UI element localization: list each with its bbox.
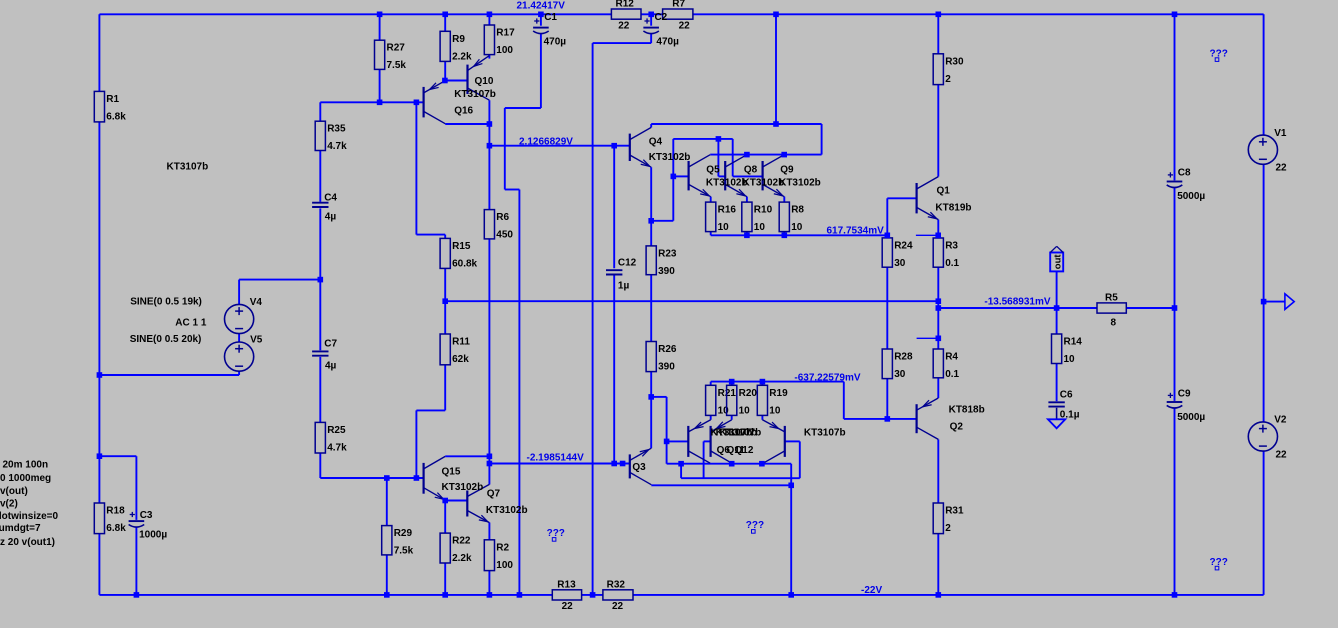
svg-text:R31: R31 xyxy=(945,506,964,517)
svg-text:62k: 62k xyxy=(452,354,469,365)
junction xyxy=(377,12,383,18)
wire C8 top xyxy=(1174,14,1176,180)
capacitor C8 xyxy=(1167,168,1206,203)
wire Q10 collector to R6 xyxy=(488,100,490,209)
wire R11 jog riser xyxy=(415,410,417,478)
svg-text:R15: R15 xyxy=(452,241,471,252)
wire top rail right xyxy=(693,13,1264,15)
resistor R25 xyxy=(315,422,347,453)
resistor R23 xyxy=(646,246,677,277)
junction xyxy=(729,379,735,385)
svg-text:KT3107b: KT3107b xyxy=(720,427,762,438)
wire V4 top branch xyxy=(239,279,320,281)
junction xyxy=(414,100,420,106)
label Q3 xyxy=(632,462,646,473)
junction xyxy=(773,121,779,127)
junction xyxy=(648,394,654,400)
junction xyxy=(487,454,493,460)
wire R26 bottom xyxy=(650,372,652,397)
wire base bus top xyxy=(673,138,732,140)
svg-text:R12: R12 xyxy=(616,0,635,10)
wire R9 bottom xyxy=(444,61,446,80)
net label 617.7534mV xyxy=(827,225,885,236)
svg-text:KT3107b: KT3107b xyxy=(454,89,496,100)
junction xyxy=(384,475,390,481)
wire Q4 collector loop top xyxy=(651,123,821,125)
wire C12 bottom xyxy=(613,275,615,464)
resistor R6 xyxy=(484,210,513,241)
wire C3 to rail xyxy=(135,527,137,595)
wire Q11 base xyxy=(704,440,711,442)
svg-text:.plotwinsize=0: .plotwinsize=0 xyxy=(0,511,59,522)
wire bottom rail right xyxy=(633,594,1264,596)
svg-text:C7: C7 xyxy=(324,339,337,350)
wire R11 jog xyxy=(416,409,445,411)
net label -2.1985144V xyxy=(527,452,585,463)
svg-text:Q16: Q16 xyxy=(454,105,473,116)
junction xyxy=(648,218,654,224)
wire C2 top xyxy=(650,14,652,25)
wire R15 jog xyxy=(416,234,445,236)
wire R24 to R28 xyxy=(886,267,888,349)
svg-text:Q8: Q8 xyxy=(744,164,758,175)
wire bottom rail to V2 xyxy=(1263,451,1265,595)
junction xyxy=(318,277,324,283)
junction xyxy=(781,152,787,158)
svg-text:R7: R7 xyxy=(672,0,685,10)
junction xyxy=(442,298,448,304)
resistor R10 xyxy=(742,202,773,233)
wire V5 bottom stub xyxy=(238,371,240,375)
resistor R29 xyxy=(382,526,414,557)
wire R19 top stub xyxy=(761,382,763,386)
svg-text:6.8k: 6.8k xyxy=(106,523,126,534)
svg-text:R26: R26 xyxy=(658,344,677,355)
wire C1 to bottom rail xyxy=(518,190,520,595)
wire R21 top stub xyxy=(710,382,712,386)
svg-text:0.1: 0.1 xyxy=(945,369,959,380)
wire Q16 Q10 collector tie xyxy=(445,123,489,125)
wire Q1 emitter to R3 xyxy=(937,220,939,238)
resistor R14 xyxy=(1052,334,1083,365)
label Q5 xyxy=(706,164,720,175)
svg-text:R6: R6 xyxy=(496,212,509,223)
wire R22 bottom xyxy=(444,563,446,595)
wire Q8 base xyxy=(718,175,725,177)
wire R14 top xyxy=(1056,308,1058,334)
wire Q16 base line xyxy=(320,101,423,103)
wire Q12 base xyxy=(785,440,800,442)
label Q15 xyxy=(442,466,461,477)
transistor Q1 KT819b xyxy=(917,177,939,220)
label SINE(0 0.5 19k) xyxy=(130,296,202,307)
junction xyxy=(538,12,544,18)
svg-text:2.2k: 2.2k xyxy=(452,51,472,62)
svg-text:-2.1985144V: -2.1985144V xyxy=(527,452,585,463)
svg-text:10: 10 xyxy=(769,405,781,416)
svg-text:Q4: Q4 xyxy=(649,137,663,148)
junction xyxy=(1172,12,1178,18)
label Q7 xyxy=(487,489,501,500)
capacitor C3 xyxy=(129,510,168,540)
wire R2 bottom xyxy=(488,571,490,595)
wire base bus left riser xyxy=(672,139,674,221)
svg-text:10: 10 xyxy=(1064,354,1076,365)
label Q11 xyxy=(727,445,746,456)
svg-text:R2: R2 xyxy=(496,542,509,553)
svg-text:out: out xyxy=(1052,254,1063,270)
wire cluster to bottom rail xyxy=(790,464,792,595)
transistor Q11 KT3107b xyxy=(711,420,732,463)
svg-text:R3: R3 xyxy=(945,241,958,252)
label KT3102b xyxy=(486,505,528,516)
svg-text:390: 390 xyxy=(658,362,675,373)
svg-text:4.7k: 4.7k xyxy=(327,442,347,453)
svg-text:4µ: 4µ xyxy=(325,361,337,372)
transistor Q3 KT3102b xyxy=(630,448,652,485)
label KT819b xyxy=(935,203,971,214)
wire R27 top xyxy=(379,14,381,40)
wire Q6 base xyxy=(667,440,689,442)
svg-text:KT3107b: KT3107b xyxy=(167,162,209,173)
svg-text:KT3107b: KT3107b xyxy=(804,427,846,438)
net label 2.1266829V xyxy=(519,137,573,148)
wire Q4 collector stub xyxy=(650,124,652,127)
svg-text:60.8k: 60.8k xyxy=(452,258,477,269)
junction xyxy=(134,592,140,598)
svg-text:R24: R24 xyxy=(894,240,913,251)
svg-text:V2: V2 xyxy=(1274,415,1287,426)
junction xyxy=(97,372,103,378)
wire R20 top stub xyxy=(731,382,733,386)
svg-text:617.7534mV: 617.7534mV xyxy=(827,225,885,236)
wire +22V top rail left xyxy=(99,13,611,15)
wire R10 bottom stub xyxy=(746,232,748,236)
wire C12 top xyxy=(613,146,615,269)
resistor R32 xyxy=(603,579,633,612)
spice directive xyxy=(0,523,41,534)
spice directive xyxy=(0,499,18,510)
wire C9 top xyxy=(1174,308,1176,401)
svg-text:Q5: Q5 xyxy=(706,164,720,175)
resistor R28 xyxy=(882,349,913,380)
svg-text:R18: R18 xyxy=(106,506,125,517)
svg-text:-13.568931mV: -13.568931mV xyxy=(984,297,1050,308)
label KT3107b xyxy=(716,427,758,438)
spice directive xyxy=(0,486,28,497)
svg-text:C6: C6 xyxy=(1060,390,1073,401)
label Q2 xyxy=(950,422,964,433)
svg-text:C2: C2 xyxy=(654,12,667,23)
wire R15 top stub xyxy=(444,235,446,239)
junction xyxy=(487,461,493,467)
wire port stub xyxy=(1264,301,1285,303)
wire Q15 base line xyxy=(320,477,423,479)
svg-text:22: 22 xyxy=(679,20,691,31)
svg-text:v(2): v(2) xyxy=(0,499,18,510)
wire R14 to C6 xyxy=(1056,364,1058,402)
svg-text:Q7: Q7 xyxy=(487,489,501,500)
wire lower cluster bottom xyxy=(681,477,800,479)
wire top rail between R12 R7 xyxy=(641,13,663,15)
wire emitter node to base riser xyxy=(651,220,673,222)
svg-text:22: 22 xyxy=(612,601,624,612)
resistor R13 xyxy=(552,579,581,612)
transistor Q10 KT3107b xyxy=(468,56,490,101)
svg-text:7.5k: 7.5k xyxy=(394,546,414,557)
wire R22 top xyxy=(444,501,446,534)
svg-text:R1: R1 xyxy=(106,94,119,105)
svg-text:V4: V4 xyxy=(250,297,263,308)
wire Q3 emitter node tie xyxy=(651,396,666,398)
label KT3102b xyxy=(442,482,484,493)
junction xyxy=(936,12,942,18)
wire R4 top tie xyxy=(917,337,939,339)
svg-text:2.1266829V: 2.1266829V xyxy=(519,137,573,148)
svg-text:R23: R23 xyxy=(658,248,677,259)
wire C7 to R25 xyxy=(319,357,321,423)
svg-text:R30: R30 xyxy=(945,56,964,67)
svg-text:C12: C12 xyxy=(618,257,637,268)
resistor R3 xyxy=(933,238,959,269)
wire R29 top xyxy=(386,478,388,526)
ground xyxy=(1048,419,1065,428)
wire bottom rail between R13 R32 xyxy=(582,594,603,596)
svg-text:1000µ: 1000µ xyxy=(139,530,167,541)
svg-text:R17: R17 xyxy=(496,28,515,39)
wire R30 to Q1 collector xyxy=(937,85,939,177)
svg-text:Q3: Q3 xyxy=(632,462,646,473)
junction xyxy=(611,461,617,467)
junction xyxy=(729,461,735,467)
wire R23 to R26 xyxy=(650,275,652,342)
svg-text:KT3102b: KT3102b xyxy=(649,152,691,163)
wire R3 bottom xyxy=(937,267,939,301)
junction xyxy=(936,298,942,304)
label Q4 xyxy=(649,137,663,148)
label Q9 xyxy=(780,164,794,175)
wire R16 bottom stub xyxy=(710,232,712,236)
svg-text:8: 8 xyxy=(1111,318,1117,329)
junction xyxy=(936,305,942,311)
wire R35 top xyxy=(319,102,321,121)
svg-text:Q2: Q2 xyxy=(950,422,964,433)
wire V5 return xyxy=(99,374,239,376)
wire to C3 xyxy=(135,456,137,520)
wire Q1 base xyxy=(887,197,916,199)
wire C8 bottom xyxy=(1174,188,1176,308)
wire C1 drop xyxy=(504,108,506,190)
junction xyxy=(442,12,448,18)
voltage source V1 xyxy=(1248,128,1287,174)
svg-text:-22V: -22V xyxy=(861,585,882,596)
wire C3 top branch xyxy=(99,455,136,457)
resistor R5 xyxy=(1097,293,1126,329)
spice directive xyxy=(3,460,49,471)
label SINE(0 0.5 20k) xyxy=(130,334,202,345)
wire R25 bottom xyxy=(319,453,321,478)
wire R3 top stub xyxy=(916,234,938,236)
svg-text:0.1: 0.1 xyxy=(945,258,959,269)
svg-text:KT3102b: KT3102b xyxy=(706,177,748,188)
svg-text:10: 10 xyxy=(791,222,803,233)
svg-text:5000µ: 5000µ xyxy=(1177,412,1205,423)
wire R35 to C4 xyxy=(319,151,321,202)
junction xyxy=(487,12,493,18)
resistor R26 xyxy=(646,342,677,373)
wire R11 bottom xyxy=(444,365,446,411)
svg-text:V1: V1 xyxy=(1274,128,1287,139)
svg-text:SINE(0 0.5 20k): SINE(0 0.5 20k) xyxy=(130,334,202,345)
svg-text:2: 2 xyxy=(945,523,951,534)
capacitor C7 xyxy=(312,339,337,372)
svg-text:22: 22 xyxy=(1276,449,1288,460)
svg-text:R9: R9 xyxy=(452,34,465,45)
svg-text:R19: R19 xyxy=(769,388,788,399)
wire R24 top stub xyxy=(886,235,888,238)
wire Q1 base drop xyxy=(886,198,888,235)
wire Q2 base line xyxy=(844,418,917,420)
svg-text:10: 10 xyxy=(718,222,730,233)
wire Q8 base riser xyxy=(717,139,719,177)
junction xyxy=(487,592,493,598)
resistor R4 xyxy=(933,349,959,380)
net label ??? xyxy=(1210,557,1228,570)
transistor Q5 KT3102b xyxy=(689,155,711,197)
capacitor C6 xyxy=(1048,390,1079,421)
capacitor C9 xyxy=(1167,389,1206,423)
wire R6 bottom long xyxy=(488,239,490,456)
svg-text:R29: R29 xyxy=(394,528,413,539)
junction xyxy=(716,136,722,142)
net label -13.568931mV xyxy=(984,297,1050,308)
junction xyxy=(1054,305,1060,311)
wire Q4 emitter drop xyxy=(650,167,652,221)
resistor R1 xyxy=(94,91,126,122)
svg-text:z 20 v(out1): z 20 v(out1) xyxy=(0,537,55,548)
junction xyxy=(517,592,523,598)
port arrow xyxy=(1285,294,1294,310)
wire Q12 base riser xyxy=(799,441,801,478)
wire -22V bottom rail left xyxy=(99,594,552,596)
resistor R22 xyxy=(440,533,472,564)
voltage source V4 xyxy=(225,297,263,334)
junction xyxy=(377,100,383,106)
junction xyxy=(1261,299,1267,305)
resistor R11 xyxy=(440,334,470,365)
svg-text:Q15: Q15 xyxy=(442,466,461,477)
svg-text:R25: R25 xyxy=(327,425,346,436)
transistor Q16 KT3107b xyxy=(424,81,446,124)
svg-text:4µ: 4µ xyxy=(325,212,337,223)
resistor R17 xyxy=(484,25,515,56)
junction xyxy=(671,174,677,180)
wire loop corner xyxy=(821,124,823,155)
capacitor C2 xyxy=(643,12,679,47)
svg-text:470µ: 470µ xyxy=(656,36,679,47)
svg-text:10: 10 xyxy=(739,405,751,416)
label KT3107b xyxy=(804,427,846,438)
net label ??? xyxy=(746,520,764,533)
resistor R12 xyxy=(611,0,641,31)
svg-text:R10: R10 xyxy=(754,205,773,216)
svg-text:C1: C1 xyxy=(544,12,557,23)
wire C1 top xyxy=(540,14,542,25)
wire output line right of R5 xyxy=(1126,307,1174,309)
label KT3107b stray xyxy=(167,162,209,173)
wire Q3 collector line xyxy=(651,484,791,486)
svg-text:470µ: 470µ xyxy=(544,36,567,47)
label KT3107b xyxy=(711,427,753,438)
svg-text:0 1000meg: 0 1000meg xyxy=(0,473,51,484)
wire C1 jog2 xyxy=(505,189,520,191)
capacitor C12 xyxy=(606,257,637,291)
wire R8 bottom stub xyxy=(783,232,785,236)
svg-text:R32: R32 xyxy=(607,579,626,590)
svg-text:C4: C4 xyxy=(324,193,337,204)
wire Q5 emitter stub xyxy=(710,197,712,203)
wire Q2 collector to R31 xyxy=(937,439,939,503)
resistor R35 xyxy=(315,121,347,152)
spice directive xyxy=(0,473,51,484)
junction xyxy=(590,592,596,598)
wire C6 to ground xyxy=(1056,408,1058,420)
svg-text:22: 22 xyxy=(618,20,630,31)
svg-text:C3: C3 xyxy=(140,510,153,521)
wire Q9 base riser xyxy=(732,139,734,177)
wire bus drop xyxy=(680,464,682,479)
wire R18 to bottom rail xyxy=(98,534,100,595)
svg-text:R28: R28 xyxy=(894,352,913,363)
junction xyxy=(885,416,891,422)
label KT3102b xyxy=(743,177,785,188)
voltage source V2 xyxy=(1248,415,1287,461)
junction xyxy=(788,592,794,598)
svg-text:C8: C8 xyxy=(1178,168,1191,179)
wire V2 top xyxy=(1263,302,1265,422)
wire Q3 base line xyxy=(489,463,629,465)
net label ??? xyxy=(1210,48,1228,61)
svg-text:1µ: 1µ xyxy=(618,281,630,292)
junction xyxy=(442,78,448,84)
net label ??? xyxy=(547,528,565,541)
wire V4 to V5 xyxy=(238,334,240,342)
wire C9 bottom xyxy=(1174,408,1176,595)
wire R1 to R18 xyxy=(98,122,100,503)
svg-text:R11: R11 xyxy=(452,337,470,348)
junction xyxy=(611,143,617,149)
transistor Q4 KT3102b xyxy=(630,127,651,167)
transistor Q8 KT3102b xyxy=(725,155,747,197)
transistor Q2 KT818b xyxy=(917,398,939,439)
wire Q3 emitter riser xyxy=(650,397,652,448)
capacitor C1 xyxy=(533,12,566,47)
svg-text:AC 1 1: AC 1 1 xyxy=(175,317,207,328)
resistor R30 xyxy=(933,54,964,85)
label Q16 xyxy=(454,105,473,116)
wire output node drop xyxy=(937,301,939,338)
label Q8 xyxy=(744,164,758,175)
svg-text:KT3102b: KT3102b xyxy=(442,482,484,493)
svg-text:V5: V5 xyxy=(250,335,263,346)
junction xyxy=(760,379,766,385)
svg-text:390: 390 xyxy=(658,266,675,277)
wire to V4 xyxy=(238,280,240,305)
wire R28 bottom xyxy=(886,379,888,419)
wire C4 to junction xyxy=(319,208,321,279)
label Q1 xyxy=(937,186,951,197)
transistor Q12 KT3107b xyxy=(762,420,784,463)
